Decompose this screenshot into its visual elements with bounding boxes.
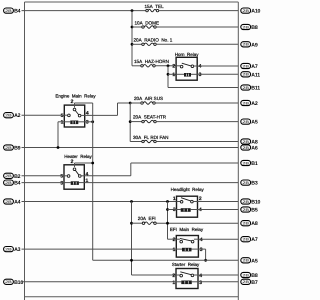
svg-text:3: 3: [199, 280, 202, 286]
wire A3 to efi pin 1: [22, 248, 177, 250]
connector A11 (right): [241, 72, 251, 77]
svg-text:B10: B10: [14, 280, 23, 286]
connector A5b (right): [241, 258, 251, 263]
starter contact left: [180, 274, 183, 277]
svg-text:Horn Relay: Horn Relay: [175, 52, 200, 57]
junction dot heater pin2 node: [91, 162, 94, 165]
heater switch wire right: [81, 175, 84, 177]
svg-text:1: 1: [86, 178, 89, 184]
wire headlight feed vertical x=167.5: [167, 202, 169, 240]
svg-text:1: 1: [173, 196, 176, 202]
svg-text:A6: A6: [251, 146, 258, 152]
wire branch to horn pin 1: [168, 73, 176, 75]
connector A2 (left): [4, 113, 14, 118]
svg-text:3: 3: [60, 181, 63, 187]
fuse F1 15A TEL: [146, 9, 159, 12]
headlight contact right: [191, 200, 194, 203]
engine relay coil: [70, 121, 78, 125]
wire engine pin1 left jog: [58, 121, 64, 123]
svg-text:B10: B10: [251, 200, 260, 206]
wire B10 to starter pin 1: [22, 281, 177, 283]
svg-text:20A EFI: 20A EFI: [138, 216, 156, 221]
svg-text:B3: B3: [251, 181, 258, 187]
connector A3 (left): [4, 247, 14, 252]
svg-text:2B: 2B: [5, 181, 12, 185]
svg-text:Engine Main Relay: Engine Main Relay: [55, 94, 96, 99]
wire main vertical x=92.7: [92, 103, 94, 260]
svg-text:2B: 2B: [242, 64, 249, 68]
svg-text:2B: 2B: [5, 200, 12, 204]
wire A4 to headlight pin 1: [22, 201, 177, 203]
heater pin4 contact: [79, 175, 82, 178]
engine relay switch wire left: [64, 114, 67, 116]
wire A4 bus vertical x=131.5: [131, 202, 133, 276]
wire engine pin1 down to B9 row: [57, 122, 59, 148]
svg-text:Heater Relay: Heater Relay: [64, 154, 92, 159]
wire B4 to fuse 15A TEL: [22, 10, 146, 12]
junction dot B9 engine pin1: [57, 146, 60, 149]
svg-text:A5: A5: [251, 258, 258, 264]
wire heater pin2 to node: [75, 162, 93, 164]
svg-text:2: 2: [71, 159, 74, 165]
svg-text:2B: 2B: [242, 73, 249, 77]
heater coil wire right: [79, 182, 84, 184]
heater coil wire left: [64, 182, 71, 184]
junction dot EFI fuse row: [130, 222, 133, 225]
connector A9 (right): [241, 42, 251, 47]
starter coil wire right: [192, 281, 198, 283]
horn relay switch arm: [182, 63, 191, 66]
junction dot AIR SUS bus: [129, 102, 132, 105]
wire bus to fuse 20A RADIO: [132, 43, 142, 45]
junction dot headlight pin3 T: [166, 208, 169, 211]
wire B9 to A6 long row: [22, 147, 239, 149]
horn relay switch wire right: [194, 65, 198, 67]
wire efi pin 3 jog down: [205, 249, 207, 260]
wire headlight pin 2 to B10: [198, 201, 239, 203]
junction dot starter feed: [130, 259, 133, 262]
svg-text:2: 2: [71, 99, 74, 105]
wire bus to fuse 10A DOME: [132, 26, 142, 28]
headlight contact left: [180, 201, 183, 204]
wire efi pin 3 jog right: [198, 248, 205, 250]
starter coil: [181, 281, 192, 285]
svg-text:A2: A2: [251, 101, 258, 107]
svg-text:4: 4: [199, 273, 202, 279]
wire horn pin 3 to A11: [197, 73, 238, 75]
svg-text:5: 5: [60, 174, 63, 180]
svg-text:2B: 2B: [242, 146, 249, 150]
engine relay pin5 contact: [68, 114, 71, 117]
wire feed corner to efi pin 2: [168, 238, 177, 240]
junction dot A4 headlight feed: [166, 200, 169, 203]
junction dot HAZ node: [167, 64, 170, 67]
svg-text:20A RADIO No. 1: 20A RADIO No. 1: [134, 38, 173, 43]
horn relay switch wire left: [176, 65, 180, 67]
wire feed T to headlight pin 3: [168, 209, 177, 211]
wire pin4 feed to AIR SUS bus: [118, 102, 131, 104]
heater pin5 contact: [67, 175, 70, 178]
connector B10 (right): [241, 199, 251, 204]
svg-text:B8: B8: [251, 273, 258, 279]
wire fuse TEL to A10: [159, 10, 239, 12]
wire fuse bus mid x=130.2: [129, 103, 131, 142]
starter switch wire right: [194, 274, 198, 276]
svg-text:A3: A3: [14, 247, 21, 253]
wire main vertical corner to starter feed row: [93, 259, 239, 261]
heater pin2 contact: [73, 168, 76, 171]
heater relay pin 2 stub: [74, 163, 76, 167]
svg-text:10A DOME: 10A DOME: [135, 20, 160, 25]
connector A4 (left): [4, 199, 14, 204]
connector B3 (right): [241, 180, 251, 185]
svg-text:2B: 2B: [5, 146, 12, 150]
svg-text:4: 4: [86, 171, 89, 177]
efi coil: [182, 248, 192, 252]
svg-text:2B: 2B: [5, 248, 12, 252]
headlight coil wire right: [191, 209, 198, 211]
engine relay pin 2 stub: [74, 103, 76, 108]
connector B10b (left): [4, 279, 14, 284]
svg-text:B7: B7: [251, 280, 258, 286]
wire fuse FL RDI FAN to A8: [156, 141, 238, 143]
engine relay coil wire left: [64, 121, 70, 123]
frame right border: [237, 2, 239, 300]
svg-text:2B: 2B: [242, 259, 249, 263]
efi contact right: [191, 240, 194, 243]
svg-text:2B: 2B: [5, 174, 12, 178]
svg-text:A4: A4: [14, 200, 21, 206]
junction dot bus top at B4 row: [131, 9, 134, 12]
svg-text:2B: 2B: [5, 280, 12, 284]
connector B8 (right): [241, 24, 251, 29]
horn relay coil wire left: [176, 73, 184, 75]
relay U2 Engine Main Relay box: [64, 105, 84, 127]
connector B4b (left): [4, 180, 14, 185]
svg-text:1: 1: [172, 280, 175, 286]
wire starter pin 4 to B8 right: [198, 274, 238, 276]
relay U6 Starter Relay box: [176, 269, 198, 289]
connector A8 (right): [241, 139, 251, 144]
svg-text:2B: 2B: [242, 101, 249, 105]
wire heater pin 4 right: [84, 175, 131, 177]
relay U3 Heater Relay box: [64, 165, 84, 189]
connector B4 (left): [4, 8, 14, 13]
junction dot RADIO row: [131, 43, 134, 46]
svg-text:2B: 2B: [242, 208, 249, 212]
svg-text:5: 5: [61, 113, 64, 119]
wire node down to horn pin 1 and B11: [167, 66, 169, 88]
engine relay pin2 contact: [73, 108, 76, 111]
svg-text:B2: B2: [14, 174, 21, 180]
wire heater pin 1 to B3: [84, 182, 238, 184]
frame bottom border: [25, 296, 239, 298]
svg-text:4: 4: [200, 237, 203, 243]
headlight coil wire left: [177, 209, 181, 211]
wire B2 to heater pin 5: [22, 175, 65, 177]
svg-text:A10: A10: [251, 9, 260, 15]
efi coil wire right: [192, 248, 199, 250]
wire fuse RADIO to A9: [156, 43, 238, 45]
connector A10 (right): [241, 8, 251, 13]
svg-text:3: 3: [200, 247, 203, 253]
svg-text:B4: B4: [14, 9, 21, 15]
svg-text:Headlight Relay: Headlight Relay: [171, 187, 205, 192]
efi switch wire right: [194, 238, 199, 240]
svg-text:2B: 2B: [242, 280, 249, 284]
connector B1 (right): [241, 160, 251, 165]
engine relay switch arm 2-4: [75, 111, 78, 115]
headlight switch wire left: [177, 201, 181, 203]
svg-text:2B: 2B: [242, 120, 249, 124]
wire to B1: [131, 162, 239, 164]
connector B11 (right): [241, 85, 251, 90]
junction dot horn pin1 branch: [167, 73, 170, 76]
wire node to fuse AIR SUS: [130, 102, 141, 104]
svg-text:B1: B1: [251, 161, 258, 167]
wire efi pin 4 to A7 right: [198, 238, 238, 240]
svg-text:A8: A8: [251, 221, 258, 227]
svg-text:20A SEAT-HTR: 20A SEAT-HTR: [133, 115, 167, 120]
connector A7 (right): [241, 63, 251, 68]
svg-text:2B: 2B: [242, 25, 249, 29]
wire A2 to engine relay pin 5: [22, 114, 65, 116]
wire fuse SEAT to A5: [156, 121, 238, 123]
svg-text:2B: 2B: [242, 238, 249, 242]
wire starter pin 3 to B7: [198, 281, 238, 283]
fuse F7 30A FL RDI FAN: [142, 140, 156, 143]
efi contact left: [180, 240, 183, 243]
horn relay switch contact left: [180, 65, 183, 68]
svg-text:15A HAZ-HORN: 15A HAZ-HORN: [134, 59, 169, 64]
svg-text:A5: A5: [251, 120, 258, 126]
junction dot engine pin3 node: [91, 120, 94, 123]
efi switch wire left: [176, 238, 180, 240]
svg-text:1: 1: [172, 72, 175, 78]
frame top border: [25, 1, 239, 3]
wire fuse EFI to A8 right: [156, 222, 238, 224]
connector B7 (right): [241, 279, 251, 284]
svg-text:B5: B5: [251, 208, 258, 214]
wire vertical fuse bus x=132: [131, 11, 133, 66]
horn relay coil wire right: [191, 73, 197, 75]
connector B5 (right): [241, 207, 251, 212]
headlight switch wire right: [193, 201, 197, 203]
starter coil wire left: [176, 281, 181, 283]
svg-text:4: 4: [199, 207, 202, 213]
svg-text:B9: B9: [14, 146, 21, 152]
svg-text:2B: 2B: [242, 181, 249, 185]
relay U5 EFI Main Relay box: [176, 236, 198, 258]
svg-text:A2: A2: [14, 113, 21, 119]
svg-text:2: 2: [172, 64, 175, 70]
svg-text:2B: 2B: [5, 114, 12, 118]
svg-text:B4: B4: [14, 181, 21, 187]
wire bus corner to fuse 15A HAZ-HORN: [132, 65, 141, 67]
headlight coil: [181, 208, 191, 212]
relay U1 Horn Relay box: [176, 57, 197, 80]
horn relay switch contact right: [191, 65, 194, 68]
wire bus to fuse 20A EFI: [132, 222, 143, 224]
wire bus to fuse SEAT-HTR: [130, 121, 142, 123]
svg-text:2B: 2B: [242, 200, 249, 204]
engine relay pin4 contact: [78, 114, 81, 117]
connector A2 (right): [241, 100, 251, 105]
svg-text:A7: A7: [251, 64, 258, 70]
fuse F5 20A AIR SUS: [141, 102, 155, 105]
engine relay coil wire right: [78, 121, 84, 123]
wire headlight pin 4 to B5: [198, 209, 239, 211]
junction dot A4 bus x=131.5: [130, 200, 133, 203]
connector A8b (right): [241, 221, 251, 226]
relay U4 Headlight Relay box: [177, 196, 198, 217]
junction dot SEAT-HTR row: [129, 120, 132, 123]
svg-text:2: 2: [173, 237, 176, 243]
starter switch arm: [180, 272, 191, 275]
engine relay switch wire right: [81, 114, 85, 116]
wire fuse AIR SUS to A2 right: [155, 102, 238, 104]
junction dot EFI row headlight feed: [166, 222, 169, 225]
svg-text:2B: 2B: [242, 161, 249, 165]
junction dot DOME row: [131, 26, 134, 29]
svg-text:2B: 2B: [242, 140, 249, 144]
svg-text:B11: B11: [251, 86, 260, 92]
svg-text:A11: A11: [251, 72, 260, 78]
wire engine pin3 to node: [85, 121, 93, 123]
fuse F2 10A DOME: [142, 26, 156, 29]
connector A7b (right): [241, 237, 251, 242]
svg-text:B8: B8: [251, 25, 258, 31]
horn relay coil: [184, 73, 191, 77]
heater switch wire left: [64, 175, 67, 177]
heater switch arm 2-4: [75, 170, 79, 175]
connector A6 (right): [241, 145, 251, 150]
fuse F8 20A EFI: [142, 222, 156, 225]
svg-text:30A FL RDI FAN: 30A FL RDI FAN: [133, 135, 169, 140]
fuse F4 15A HAZ-HORN: [141, 65, 155, 68]
frame left border: [24, 2, 26, 300]
wire horn pin 4 to A7: [197, 65, 238, 67]
heater coil: [71, 181, 79, 185]
starter contact right: [191, 274, 194, 277]
svg-text:Starter Relay: Starter Relay: [172, 262, 200, 267]
connector A5 (right): [241, 119, 251, 124]
svg-text:20A AIR SUS: 20A AIR SUS: [134, 96, 163, 101]
fuse F6 20A SEAT-HTR: [142, 120, 156, 123]
svg-text:A7: A7: [251, 237, 258, 243]
svg-text:2B: 2B: [5, 9, 12, 13]
wire node to B11: [168, 87, 238, 89]
wire engine pin2 node row: [75, 102, 93, 104]
svg-text:4: 4: [199, 64, 202, 70]
svg-text:2B: 2B: [242, 222, 249, 226]
svg-text:3: 3: [199, 72, 202, 78]
wire bus corner to fuse FL RDI FAN: [130, 141, 142, 143]
svg-text:A9: A9: [251, 42, 258, 48]
svg-text:15A TEL: 15A TEL: [145, 4, 165, 9]
wire fuse HAZ to horn relay pin 2: [155, 65, 176, 67]
headlight switch arm: [181, 198, 191, 201]
wire pin4 feed jog down: [117, 103, 119, 115]
svg-text:1: 1: [173, 247, 176, 253]
svg-text:2B: 2B: [242, 9, 249, 13]
svg-text:2: 2: [172, 273, 175, 279]
connector B9 (left): [4, 145, 14, 150]
junction dot efi pin3 on A5 row: [204, 259, 207, 262]
wire starter feed down corner: [132, 274, 177, 276]
wire fuse DOME to B8: [156, 26, 238, 28]
starter switch wire left: [176, 274, 180, 276]
connector B8b (right): [241, 272, 251, 277]
svg-text:2B: 2B: [242, 273, 249, 277]
svg-text:2B: 2B: [242, 86, 249, 90]
svg-text:3: 3: [173, 207, 176, 213]
efi switch arm: [180, 238, 192, 241]
svg-text:EFI Main Relay: EFI Main Relay: [170, 227, 204, 232]
wire B4 to heater pin 3: [22, 182, 65, 184]
connector B2 (left): [4, 173, 14, 178]
wire pin4 feed jog left: [85, 114, 118, 116]
svg-text:2B: 2B: [242, 43, 249, 47]
fuse F3 20A RADIO No.1: [142, 43, 156, 46]
efi coil wire left: [176, 248, 182, 250]
wire heater pin4 up to B1 row: [130, 163, 132, 176]
